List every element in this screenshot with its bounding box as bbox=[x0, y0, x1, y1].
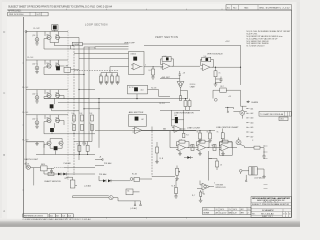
relay coil RL2 bbox=[70, 180, 75, 188]
svg-text:JM: JM bbox=[215, 213, 218, 215]
bus resistor RB6 bbox=[91, 125, 94, 131]
svg-text:VERT SECTION: VERT SECTION bbox=[155, 36, 178, 39]
svg-text:2N4: 2N4 bbox=[55, 117, 58, 119]
+B terminal bbox=[101, 159, 103, 161]
ground R36 bbox=[155, 160, 159, 164]
svg-text:2N4: 2N4 bbox=[46, 117, 49, 119]
lower service wire bbox=[44, 171, 95, 174]
stage 4 current source CR4 bbox=[35, 121, 39, 125]
svg-text:-18: -18 bbox=[183, 73, 185, 75]
svg-text:2N4: 2N4 bbox=[46, 34, 49, 36]
buffer output wire bbox=[144, 66, 163, 68]
long wire loop to vert section bbox=[144, 45, 241, 85]
stage 1 current source CR1 bbox=[35, 38, 39, 42]
transistor Q9 bbox=[236, 140, 241, 145]
zone ticks left border bbox=[22, 63, 23, 190]
U2 output wire to vert bounce bbox=[172, 65, 200, 67]
svg-text:x10: x10 bbox=[141, 90, 144, 92]
stage 4 ground bbox=[35, 125, 39, 129]
bus resistor RB4 bbox=[73, 125, 76, 131]
stage 3 input wire bbox=[26, 90, 45, 96]
bottom-left revision strip bbox=[23, 214, 48, 218]
svg-text:LM-1: LM-1 bbox=[280, 119, 284, 121]
diode D2 bbox=[103, 179, 106, 182]
stage 2 input wire bbox=[26, 60, 45, 66]
stage 1 jfet drain wires bbox=[50, 32, 74, 46]
stage 2 drain wires bbox=[45, 60, 68, 63]
top-right header strip bbox=[226, 5, 292, 10]
transformer ground bbox=[262, 175, 266, 179]
ground R46 bbox=[174, 194, 178, 198]
svg-text:B ARM: B ARM bbox=[252, 101, 259, 104]
U7 op-amp bbox=[172, 126, 184, 133]
stage 5 jfet Q12 bbox=[59, 141, 63, 146]
drawing frame: right border bbox=[291, 10, 293, 217]
bus dotted shield line bbox=[67, 31, 69, 181]
svg-text:3: 3 bbox=[283, 213, 284, 215]
vertical drop strobe bbox=[209, 151, 213, 181]
svg-text:SHEET 1 OF 1: SHEET 1 OF 1 bbox=[262, 216, 273, 218]
svg-text:LM308: LM308 bbox=[73, 44, 79, 46]
bus rung wires bbox=[74, 47, 100, 142]
buffer box U1 bbox=[129, 52, 145, 75]
stage 5 jfet Q11 bbox=[47, 141, 51, 146]
integrator capacitor C7 bbox=[175, 117, 178, 123]
stage 3 output wires bbox=[44, 96, 89, 111]
op-amp E3 bbox=[219, 144, 231, 151]
stage 2 blob T2 bbox=[56, 66, 60, 70]
stage 3 ground bbox=[35, 99, 39, 103]
svg-text:R 2: R 2 bbox=[186, 134, 189, 136]
E3 module box bbox=[220, 142, 233, 155]
op-amp E1 bbox=[176, 144, 188, 151]
lamp DS1 bbox=[26, 165, 30, 169]
svg-text:LINE INTEGRATOR: LINE INTEGRATOR bbox=[174, 112, 194, 115]
strobe dashed line bbox=[151, 131, 153, 177]
svg-text:(+15 AV): (+15 AV) bbox=[84, 185, 91, 188]
grounds under line resistors bbox=[198, 139, 202, 143]
lamp NE51 box bbox=[41, 166, 48, 171]
left input rail wire bbox=[25, 32, 27, 169]
resistor R24 bbox=[199, 133, 202, 139]
stage 1 jfet Q2 bbox=[55, 35, 59, 40]
stage 3 drain wires bbox=[45, 90, 68, 93]
svg-text:2N4: 2N4 bbox=[46, 63, 49, 65]
resistor R22 bbox=[184, 101, 187, 107]
stage 5 wires bbox=[36, 139, 95, 155]
svg-text:Rₚ 2.8: Rₚ 2.8 bbox=[160, 103, 165, 105]
line integrator left rail bbox=[160, 110, 200, 133]
stage 1 output wires to bus bbox=[44, 38, 79, 50]
svg-text:Rₚ2: Rₚ2 bbox=[149, 70, 152, 72]
connector sub box J2a bbox=[279, 117, 288, 121]
bus resistor RB2 bbox=[81, 115, 84, 121]
U2 bias resistor R16 bbox=[152, 69, 155, 75]
right rail wire bbox=[241, 92, 247, 106]
RL7 wires bbox=[213, 90, 241, 96]
relay RL7 box bbox=[220, 88, 226, 92]
svg-text:LOOP SECTION: LOOP SECTION bbox=[85, 23, 108, 26]
E1 feedback resistor bbox=[179, 140, 185, 143]
terminal strip ticks left bbox=[247, 109, 250, 137]
svg-text:A: A bbox=[3, 209, 5, 213]
stage 2 jfet Q3 bbox=[47, 63, 51, 68]
horizontal tie wires into U1 bbox=[71, 49, 129, 58]
timer box U8 bbox=[126, 189, 133, 195]
connector circle J1 bbox=[214, 98, 217, 101]
input terminal on rail bbox=[25, 31, 27, 33]
svg-text:INTERLOCK: INTERLOCK bbox=[216, 187, 227, 189]
stage 2 ground bbox=[35, 70, 39, 74]
svg-text:D: D bbox=[3, 30, 5, 34]
wires to line resistors bbox=[196, 129, 223, 143]
down arrow terminal A bbox=[134, 204, 136, 206]
AML op-amp U5b bbox=[133, 127, 145, 134]
svg-text:EARTH LIGHT: EARTH LIGHT bbox=[25, 158, 39, 161]
E2 ground bbox=[198, 152, 202, 156]
svg-text:FIL: FIL bbox=[248, 209, 250, 211]
transformer arrow bbox=[245, 180, 247, 182]
bus resistor RB5 bbox=[81, 125, 84, 131]
cap C5 bbox=[50, 168, 53, 173]
svg-text:C: C bbox=[3, 91, 5, 95]
svg-text:LINE COUNT: LINE COUNT bbox=[187, 127, 201, 129]
pot P1 bbox=[176, 168, 181, 175]
svg-text:P2B AA4: P2B AA4 bbox=[99, 173, 106, 176]
vertical feed wire to chart section bbox=[98, 102, 100, 147]
resistor R26 bbox=[221, 133, 224, 139]
interstage resistor R42 bbox=[213, 145, 216, 151]
ground right bbox=[262, 154, 266, 158]
svg-text:2N4: 2N4 bbox=[46, 92, 49, 94]
U6 feedback loop wire bbox=[181, 91, 188, 99]
buffer blob U4a bbox=[134, 87, 138, 91]
terminal strip right lower bbox=[264, 146, 268, 189]
stage 5 blob T5 bbox=[54, 146, 58, 150]
chart resistor R32 bbox=[78, 145, 81, 151]
svg-text:2N4: 2N4 bbox=[55, 34, 58, 36]
stage 1 input wire bbox=[26, 32, 45, 38]
wire stage1 LM module bbox=[70, 46, 72, 50]
stage 4 jfet Q8 bbox=[55, 118, 59, 123]
stage 4 output wires bbox=[44, 121, 95, 134]
op-amp module box A1 bbox=[72, 42, 82, 46]
svg-text:N.7) SEMI 2N2219: N.7) SEMI 2N2219 bbox=[247, 46, 266, 48]
svg-text:RL7: RL7 bbox=[221, 86, 224, 88]
svg-text:6-72: 6-72 bbox=[233, 213, 237, 215]
ground chart top bbox=[35, 142, 39, 146]
header revision box row bbox=[8, 12, 49, 16]
resistor R23 bbox=[188, 101, 191, 107]
transformer output wire bbox=[257, 169, 264, 177]
interstage resistor R41 bbox=[191, 145, 194, 151]
op-amp U6 line driver (down triangle) bbox=[177, 81, 184, 88]
AML emitter box U5 bbox=[129, 115, 147, 127]
terminal strip tiny labels bbox=[251, 107, 254, 138]
op-amp E2 bbox=[196, 144, 208, 151]
bus ground bbox=[82, 141, 86, 145]
junction dots bus bbox=[78, 89, 79, 90]
svg-text:NE51: NE51 bbox=[41, 164, 45, 166]
drawing frame: top header rule bbox=[7, 9, 292, 11]
wire U4 to mid bbox=[137, 90, 170, 99]
drawing frame: bottom border bbox=[24, 216, 292, 218]
svg-text:VERT OFF: VERT OFF bbox=[124, 43, 135, 45]
svg-text:SK 2-102-A4: SK 2-102-A4 bbox=[261, 212, 274, 215]
svg-text:+15: +15 bbox=[228, 96, 231, 98]
svg-text:B: B bbox=[3, 153, 5, 157]
stage 4 jfet Q7 bbox=[47, 118, 51, 123]
chart resistor R33 bbox=[86, 145, 89, 151]
svg-text:R₀ 10¹¹: R₀ 10¹¹ bbox=[34, 27, 41, 30]
svg-text:P1A AA1: P1A AA1 bbox=[64, 162, 71, 165]
resistor R34 bbox=[48, 173, 54, 176]
svg-text:2N4: 2N4 bbox=[55, 92, 58, 94]
op-amp U2 bbox=[161, 63, 173, 70]
U3 cap C1 bbox=[220, 77, 223, 83]
divider grounds bbox=[99, 81, 103, 85]
svg-text:R₀ 10⁸: R₀ 10⁸ bbox=[28, 57, 34, 59]
stage 1 ground bbox=[35, 41, 39, 45]
U7 lower resistor bbox=[183, 133, 185, 137]
svg-text:(10⁻⁴): (10⁻⁴) bbox=[33, 63, 39, 66]
bus resistor RB3 bbox=[91, 115, 94, 121]
diode D4 bbox=[187, 156, 190, 159]
E1 ground bbox=[178, 152, 182, 156]
svg-text:PER DCN 1164: PER DCN 1164 bbox=[9, 14, 24, 16]
svg-text:+15V: +15V bbox=[225, 41, 230, 43]
wire chart light to service bbox=[64, 167, 95, 169]
resistor R25 bbox=[209, 133, 212, 139]
stage 4 drain wires bbox=[45, 115, 68, 118]
stage 2 output wires bbox=[44, 66, 84, 75]
E2 feedback resistor bbox=[199, 140, 205, 143]
diode D3 bbox=[108, 179, 111, 182]
U3 feedback box with cap bbox=[202, 57, 211, 62]
U3 output wire bbox=[212, 66, 241, 68]
bus resistor RB1 bbox=[73, 115, 76, 121]
stage 4 input wire bbox=[26, 115, 45, 121]
stage 3 jfet Q6 bbox=[55, 93, 59, 98]
Q10 base wires bbox=[225, 107, 240, 112]
svg-text:C-5 BROOKHAVEN NATIONAL LABOR: C-5 BROOKHAVEN NATIONAL LABORATORY UPTON… bbox=[23, 218, 92, 221]
stage 4 blob T4 bbox=[50, 128, 54, 132]
dashed offset wire bbox=[74, 70, 118, 72]
svg-text:2N4: 2N4 bbox=[55, 63, 58, 65]
svg-text:Rₚ 7: Rₚ 7 bbox=[192, 195, 195, 197]
svg-text:NO.: NO. bbox=[233, 8, 237, 10]
title block outline bbox=[251, 197, 292, 218]
op-amp U1b bbox=[131, 63, 143, 70]
svg-text:4: 4 bbox=[289, 213, 290, 215]
scale/date strip bbox=[203, 207, 251, 214]
bus wire 5 bbox=[88, 47, 90, 142]
svg-text:BNL SCHEMATIC 2-102: BNL SCHEMATIC 2-102 bbox=[260, 7, 291, 10]
svg-text:R₀ 10: R₀ 10 bbox=[129, 87, 134, 89]
AML blob U5a bbox=[135, 117, 139, 121]
strobe row input wire bbox=[170, 131, 178, 148]
collector wire resistor R43 bbox=[254, 146, 260, 149]
op-amp U3 bbox=[201, 64, 213, 71]
relay contact circle bbox=[130, 178, 133, 181]
service wire mid bbox=[95, 165, 104, 167]
svg-text:TAG: TAG bbox=[244, 7, 249, 10]
B ARM arrow wire bbox=[247, 101, 251, 103]
U6 input wire and cap bbox=[160, 71, 181, 81]
U3 input resistor R18 bbox=[214, 71, 217, 77]
svg-text:P1B AA3: P1B AA3 bbox=[104, 162, 111, 165]
svg-text:1UF: 1UF bbox=[174, 115, 177, 117]
bus wire 4 bbox=[83, 47, 85, 142]
svg-text:SUBJECT SHEET OF RECORD PRINTS: SUBJECT SHEET OF RECORD PRINTS TO BE RET… bbox=[8, 6, 113, 9]
svg-text:(115 VAC): (115 VAC) bbox=[255, 177, 264, 180]
pot ground bbox=[175, 177, 179, 181]
svg-text:RL2: RL2 bbox=[65, 178, 68, 180]
meter out wires bbox=[113, 198, 140, 204]
diode D1b bbox=[63, 173, 66, 176]
wire junction tie bbox=[98, 99, 100, 103]
buffer box U4 bbox=[128, 85, 148, 94]
op-amp E4 bbox=[200, 183, 212, 190]
U2 feedback box with cap bbox=[162, 56, 171, 61]
E3 output wire bbox=[232, 147, 254, 149]
long signal wire mid bbox=[44, 98, 188, 100]
title block schematic row bbox=[251, 208, 292, 210]
E3 feedback resistor bbox=[222, 140, 228, 143]
stage 1 wire to jfets bbox=[45, 30, 68, 31]
down arrow terminal B bbox=[140, 204, 142, 206]
svg-text:(+15 AV): (+15 AV) bbox=[130, 207, 137, 210]
transformer input terminal bbox=[239, 170, 242, 173]
drawing frame: left border bbox=[23, 17, 25, 217]
stage 3 jfet Q5 bbox=[47, 93, 51, 98]
U6 output resistor R21 bbox=[179, 96, 181, 101]
wire lower signal bus bbox=[58, 101, 170, 103]
AML output long wire bbox=[95, 129, 196, 131]
stage 5 wire bbox=[26, 142, 44, 148]
divider top wires bbox=[101, 67, 129, 76]
resistor R46 left bbox=[175, 188, 178, 194]
stage 2 jfet Q4 bbox=[55, 63, 59, 68]
stage 2 current source CR2 bbox=[35, 66, 39, 70]
svg-text:CHART SERVICE: CHART SERVICE bbox=[44, 180, 61, 183]
divider resistors R11 R12 R13 R14 bbox=[100, 76, 103, 82]
svg-text:R1 31.6: R1 31.6 bbox=[190, 84, 196, 86]
svg-text:LINE CENTER CHART: LINE CENTER CHART bbox=[216, 126, 239, 129]
U3 ground bbox=[214, 82, 218, 86]
cable connector box J2 bbox=[259, 112, 292, 117]
bus wire 3 bbox=[78, 38, 80, 161]
E3 ground bbox=[221, 152, 225, 156]
meter M1 bbox=[109, 196, 113, 200]
stage 2 resistor R28 box bbox=[64, 67, 71, 72]
relay contact box bbox=[134, 177, 139, 181]
resistor R36 bbox=[156, 147, 159, 153]
svg-text:R₀ 10⁶: R₀ 10⁶ bbox=[23, 87, 29, 89]
zone ticks along bottom border bbox=[67, 217, 187, 218]
svg-text:LM310: LM310 bbox=[131, 53, 137, 55]
dashed wire chart light bbox=[54, 167, 64, 169]
transformer T6 core bbox=[249, 167, 257, 175]
buffer blob U1a bbox=[133, 57, 137, 61]
svg-text:R₀ 10⁴: R₀ 10⁴ bbox=[23, 140, 29, 142]
svg-text:TO CHART RECORDER AA: TO CHART RECORDER AA bbox=[260, 113, 284, 116]
svg-text:R₀ 10⁵: R₀ 10⁵ bbox=[23, 112, 29, 114]
stage 3 current source CR3 bbox=[35, 96, 39, 100]
svg-text:CH: CH bbox=[229, 209, 231, 211]
svg-text:VERT BOUNCE: VERT BOUNCE bbox=[207, 53, 223, 55]
svg-text:1: 1 bbox=[286, 213, 287, 215]
U2 ground bbox=[151, 75, 155, 79]
E4 resistor R45 bbox=[200, 192, 202, 196]
svg-text:6-12-72: 6-12-72 bbox=[220, 213, 227, 215]
resistor R44 bbox=[216, 161, 219, 167]
svg-text:REFERENCE DWGS: REFERENCE DWGS bbox=[24, 216, 44, 218]
diode D1 bbox=[58, 173, 61, 176]
bus dashed line bbox=[73, 46, 75, 176]
E4 ground bbox=[199, 199, 203, 203]
zone ticks along top border bbox=[67, 9, 223, 10]
stage 1 jfet Q1 bbox=[47, 35, 51, 40]
long feedback wire top bbox=[82, 44, 128, 49]
svg-text:2: 2 bbox=[247, 213, 248, 215]
svg-text:NONE: NONE bbox=[204, 213, 210, 215]
svg-text:AML EMITTER: AML EMITTER bbox=[129, 111, 144, 114]
stage 3 blob T3 bbox=[50, 104, 54, 108]
stage 1 coupling blob T1 bbox=[52, 25, 58, 31]
transistor Q10 bbox=[240, 110, 245, 115]
